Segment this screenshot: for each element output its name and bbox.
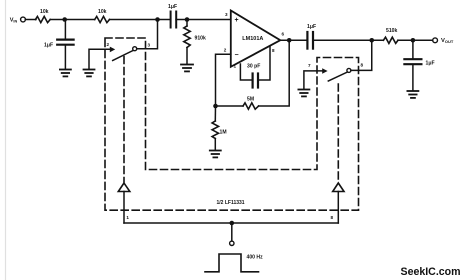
node G junction dot: [411, 38, 416, 43]
wire control bus: [124, 222, 338, 224]
svg-text:2: 2: [224, 48, 227, 53]
svg-text:8: 8: [331, 215, 334, 220]
label 10k (R2): [98, 9, 107, 15]
svg-text:1μF: 1μF: [44, 43, 53, 49]
svg-text:8: 8: [361, 63, 364, 68]
wire node C down to R3: [186, 20, 188, 27]
pin 1 label: [234, 64, 237, 69]
wire pin 2 stub: [216, 54, 231, 106]
clock pulse waveform 400 Hz: [205, 254, 259, 272]
svg-text:1μF: 1μF: [307, 24, 316, 30]
pin 2 label (S1): [107, 42, 110, 47]
pin 6 label: [282, 32, 285, 37]
svg-text:5M: 5M: [247, 97, 254, 103]
svg-text:7: 7: [308, 63, 311, 68]
label 1/2 LF11331: [217, 200, 245, 206]
resistor R6 1M: [212, 121, 218, 139]
capacitor C2 1uF series: [170, 12, 172, 28]
svg-text:1M: 1M: [220, 130, 227, 136]
dashed control link S1 driver: [123, 57, 125, 183]
wire R4 to Vout with node G: [398, 39, 433, 41]
label 10k (R1): [40, 9, 49, 15]
wire C3 to R4 with node F: [313, 39, 383, 41]
pin 8 label: [272, 48, 275, 53]
svg-text:1/2 LF11331: 1/2 LF11331: [217, 200, 245, 206]
wire node G down to C4: [412, 40, 414, 58]
analog switch S1 (pins 2-3) wire pin 2 to ground: [89, 49, 111, 69]
op-amp minus input mark: [235, 52, 239, 59]
wire S1 pole to node B: [137, 20, 158, 49]
svg-text:400 Hz: 400 Hz: [247, 255, 264, 261]
pin 8 label (S2): [361, 63, 364, 68]
switch S1 arm: [113, 51, 133, 61]
analog switch S2 (pins 7-8) wire pin 7 to ground: [304, 71, 323, 89]
wire C2 to op-amp pin 3 with node C: [176, 19, 230, 21]
wire C4 to ground: [412, 65, 414, 91]
svg-text:1μF: 1μF: [168, 4, 177, 10]
resistor R4 510k: [383, 37, 398, 43]
ground (C4): [407, 91, 418, 98]
svg-text:SeekIC.com: SeekIC.com: [401, 266, 460, 278]
watermark SeekIC.com: [401, 266, 460, 278]
label 510k (R4): [386, 28, 397, 34]
pin 3 label: [225, 12, 228, 17]
label 1M (R6): [220, 130, 227, 136]
node A junction dot: [62, 17, 67, 22]
pin 2 label: [224, 48, 227, 53]
pin 8 label (driver): [331, 215, 334, 220]
wire C1 to ground: [64, 45, 66, 69]
switch S2 fixed contact arrow: [322, 68, 327, 74]
wire driver A2 to control bus: [337, 192, 339, 224]
wire R5 to output node: [259, 40, 290, 106]
pin 7 label (S2): [308, 63, 311, 68]
capacitor C5 30 pF: [252, 74, 254, 88]
wire node H to clock terminal: [231, 223, 233, 241]
wire node A down to C1: [64, 20, 66, 40]
label 1uF (C3): [307, 24, 316, 30]
svg-text:2: 2: [107, 42, 110, 47]
label Vin: [10, 18, 18, 24]
label 910k (R3): [195, 36, 206, 42]
ground (S1 pin 2): [84, 70, 95, 77]
node D junction dot (feedback/inverting): [213, 104, 218, 109]
label Vout: [441, 38, 454, 44]
node B junction dot: [155, 17, 160, 22]
wire R1 to R2 with node A: [50, 19, 94, 21]
svg-text:1μF: 1μF: [426, 61, 435, 67]
svg-text:3: 3: [148, 43, 151, 48]
wire S2 pole to node F: [351, 40, 372, 70]
svg-text:8: 8: [272, 48, 275, 53]
wire R3 to ground: [186, 48, 188, 65]
svg-text:VIN: VIN: [10, 18, 18, 24]
svg-text:30 pF: 30 pF: [247, 64, 260, 70]
wire op-amp output pin 6 to C3: [281, 39, 307, 41]
svg-text:910k: 910k: [195, 36, 206, 42]
label 5M (R5): [247, 97, 254, 103]
switch S1 fixed contact arrow: [110, 47, 115, 53]
svg-text:1: 1: [126, 215, 129, 220]
resistor R5 5M: [243, 103, 259, 109]
svg-text:3: 3: [225, 12, 228, 17]
capacitor C4 1uF output shunt: [404, 58, 421, 60]
ground (S2 pin 7): [298, 90, 309, 97]
svg-text:6: 6: [282, 32, 285, 37]
wire pin 1 to C5: [240, 64, 252, 80]
wire pin 8 to C5: [259, 47, 270, 81]
output terminal Vout: [433, 38, 438, 43]
label 400 Hz: [247, 255, 264, 261]
node F junction dot: [369, 38, 374, 43]
ground (C1): [60, 70, 71, 77]
svg-text:LM101A: LM101A: [242, 36, 263, 42]
driver triangle A2 (right): [333, 183, 344, 192]
pin 3 label (S1): [148, 43, 151, 48]
clock input terminal: [230, 241, 234, 245]
label 30 pF (C5): [247, 64, 260, 70]
capacitor C1 1uF shunt: [57, 38, 73, 40]
switch S1 pole circle: [133, 47, 137, 51]
wire node D down to R6: [214, 106, 216, 121]
resistor R3 910k: [184, 26, 190, 48]
op-amp plus input mark: [235, 17, 239, 24]
node C junction dot: [185, 17, 190, 22]
wire R6 to ground: [214, 139, 216, 151]
label 1uF (C1): [44, 43, 53, 49]
label LM101A: [242, 36, 263, 42]
dashed control link S2 driver: [337, 84, 339, 182]
svg-text:−: −: [235, 52, 239, 59]
driver triangle A1 (left): [118, 183, 130, 192]
svg-text:10k: 10k: [40, 9, 49, 15]
switch S2 arm: [328, 72, 347, 81]
resistor R1 10k: [35, 16, 50, 22]
ground (R3): [181, 65, 193, 72]
pin 1 label (driver): [126, 215, 129, 220]
svg-text:1: 1: [234, 64, 237, 69]
wire node D to R5: [216, 105, 244, 107]
node H control junction dot: [230, 221, 235, 226]
ground (R6): [210, 151, 221, 158]
svg-text:+: +: [235, 17, 239, 24]
LF11331 package dashed boundary: [105, 38, 359, 210]
wire Vin to R1: [25, 19, 36, 21]
svg-text:VOUT: VOUT: [441, 38, 454, 44]
switch S2 pole circle: [347, 68, 351, 72]
svg-text:510k: 510k: [386, 28, 397, 34]
label 1uF (C4): [426, 61, 435, 67]
svg-text:10k: 10k: [98, 9, 107, 15]
capacitor C3 1uF series output: [306, 32, 308, 49]
op-amp U1 LM101A: [231, 11, 280, 67]
resistor R2 10k: [95, 16, 110, 22]
label 1uF (C2): [168, 4, 177, 10]
wire driver A1 to control bus: [123, 192, 125, 224]
wire R2 to C2 with node B: [110, 19, 171, 21]
node E output junction dot: [287, 38, 292, 43]
input terminal Vin: [21, 17, 26, 22]
